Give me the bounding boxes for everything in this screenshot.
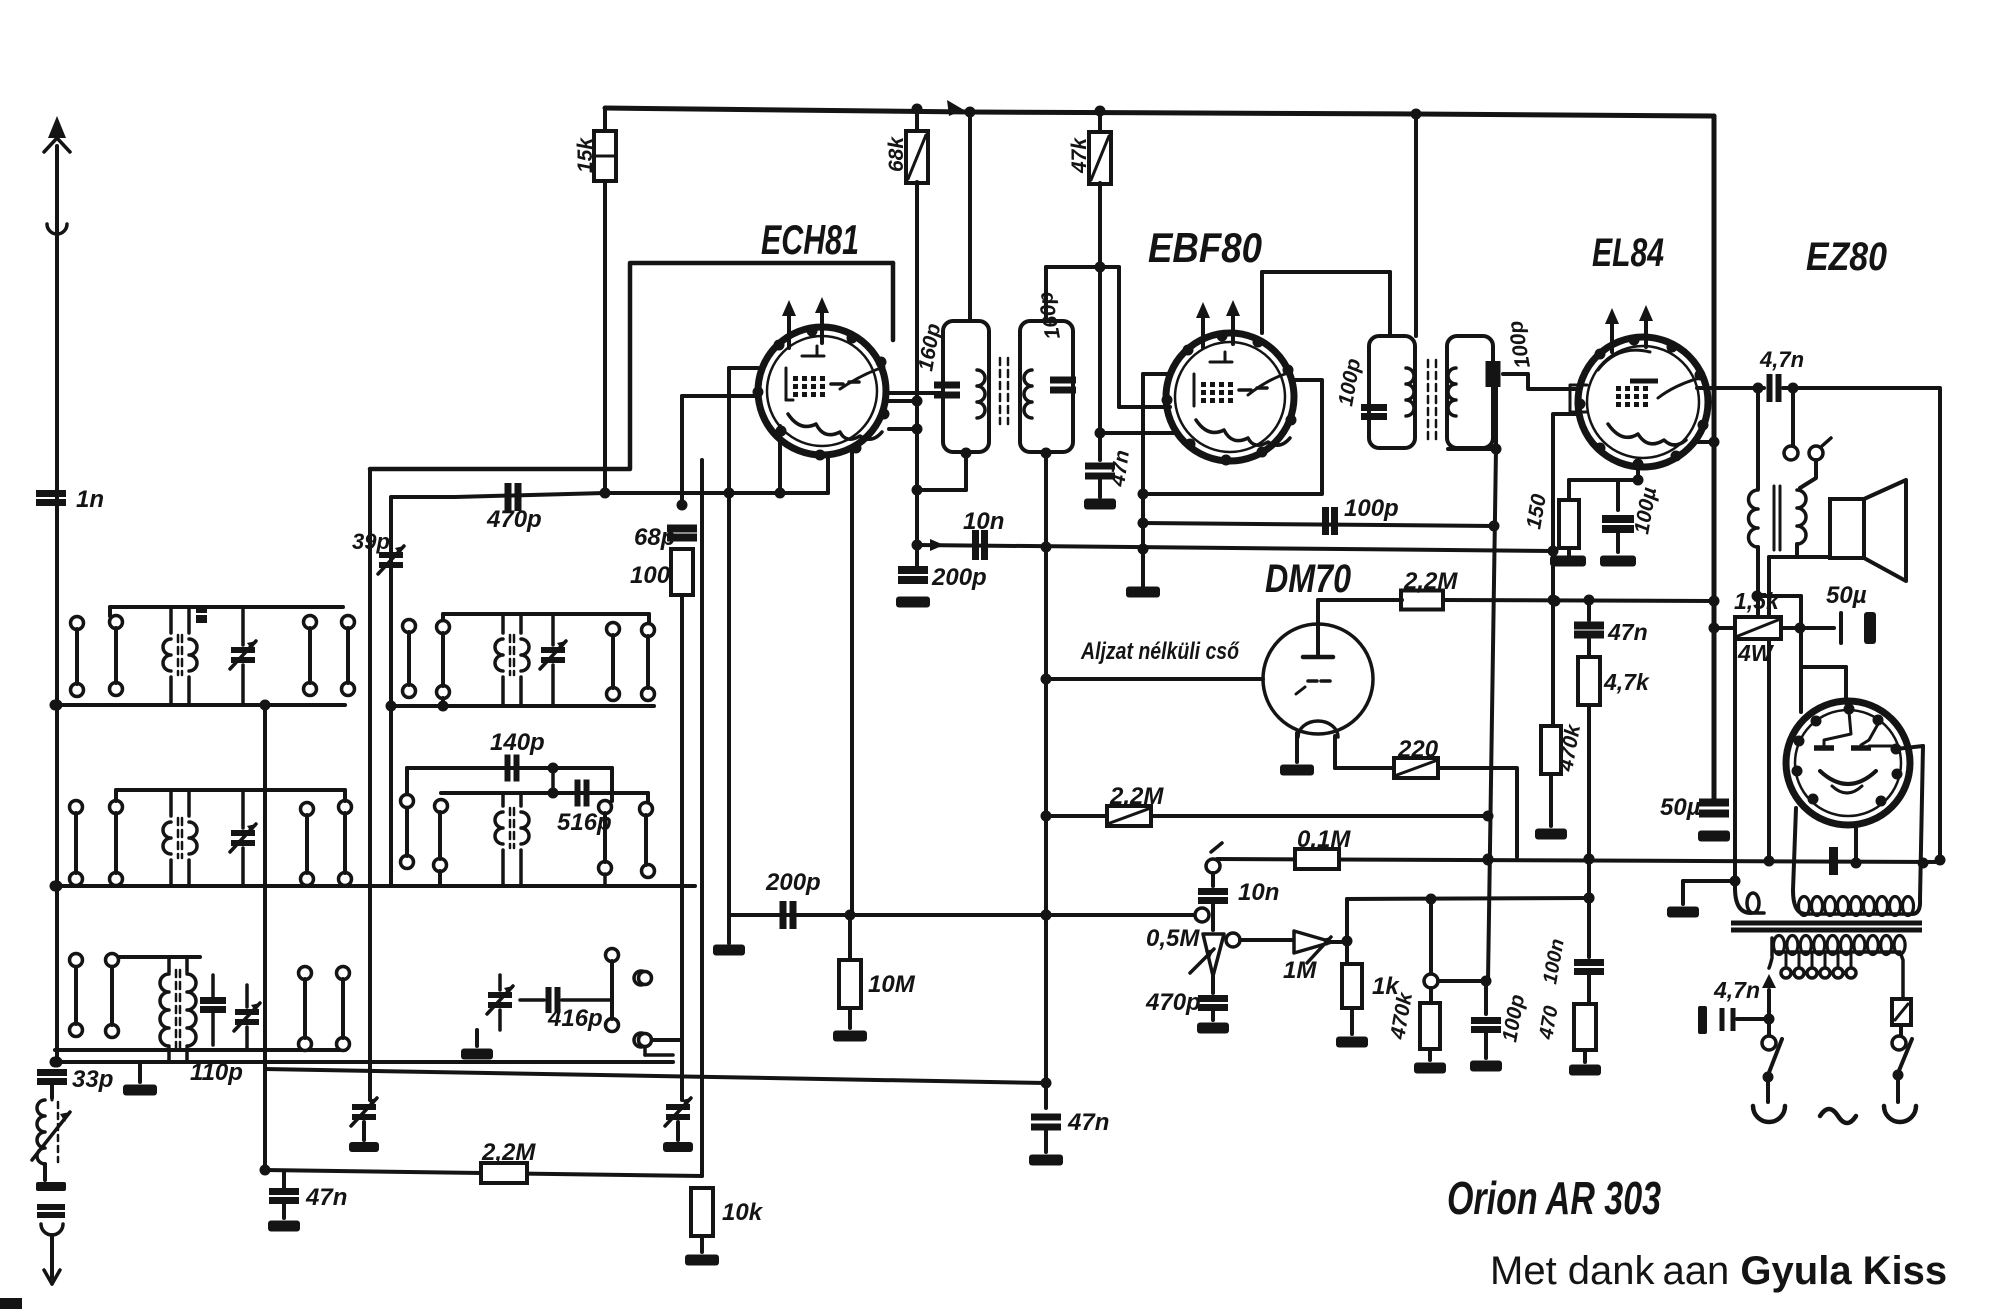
svg-text:1,5k: 1,5k: [1734, 588, 1780, 614]
svg-text:68k: 68k: [885, 136, 908, 172]
svg-text:EBF80: EBF80: [1148, 224, 1262, 271]
svg-text:4W: 4W: [1737, 640, 1775, 666]
svg-text:0,5M: 0,5M: [1146, 925, 1200, 952]
svg-text:47n: 47n: [1607, 619, 1648, 645]
svg-text:1n: 1n: [76, 486, 104, 513]
svg-text:10n: 10n: [963, 508, 1004, 535]
svg-text:Met dankaan Gyula Kiss: Met dankaan Gyula Kiss: [1490, 1249, 1947, 1293]
svg-text:15k: 15k: [574, 137, 597, 173]
svg-text:2,2M: 2,2M: [1109, 783, 1164, 810]
svg-text:200p: 200p: [931, 564, 987, 591]
svg-text:47k: 47k: [1068, 137, 1091, 174]
svg-text:10n: 10n: [1238, 879, 1279, 906]
svg-text:ECH81: ECH81: [761, 216, 859, 263]
svg-text:0,1M: 0,1M: [1297, 826, 1351, 853]
svg-text:50µ: 50µ: [1660, 794, 1701, 821]
svg-text:220: 220: [1397, 736, 1439, 763]
svg-text:EL84: EL84: [1592, 231, 1664, 275]
svg-text:10M: 10M: [868, 971, 916, 998]
svg-text:4,7n: 4,7n: [1759, 347, 1804, 372]
svg-text:110p: 110p: [190, 1059, 243, 1086]
svg-text:39p: 39p: [352, 529, 390, 554]
svg-text:47n: 47n: [1067, 1109, 1109, 1136]
svg-text:2,2M: 2,2M: [1403, 568, 1458, 595]
svg-text:DM70: DM70: [1265, 557, 1351, 601]
svg-text:10k: 10k: [722, 1199, 764, 1226]
svg-text:416p: 416p: [547, 1005, 603, 1032]
svg-text:4,7k: 4,7k: [1603, 669, 1650, 695]
svg-text:Aljzat nélküli cső: Aljzat nélküli cső: [1080, 638, 1240, 665]
svg-text:1M: 1M: [1283, 957, 1317, 984]
svg-text:140p: 140p: [490, 729, 545, 756]
svg-text:2,2M: 2,2M: [481, 1139, 536, 1166]
svg-text:EZ80: EZ80: [1806, 235, 1887, 279]
svg-text:4,7n: 4,7n: [1713, 977, 1760, 1003]
svg-text:47n: 47n: [305, 1184, 347, 1211]
svg-text:100p: 100p: [1344, 495, 1399, 522]
svg-text:33p: 33p: [72, 1066, 113, 1093]
svg-text:470p: 470p: [486, 506, 542, 533]
svg-text:470p: 470p: [1145, 989, 1201, 1016]
svg-text:100: 100: [630, 562, 671, 589]
svg-text:50µ: 50µ: [1826, 582, 1867, 609]
svg-text:Orion AR 303: Orion AR 303: [1447, 1172, 1661, 1224]
svg-text:200p: 200p: [765, 869, 821, 896]
svg-text:68p: 68p: [634, 524, 675, 551]
